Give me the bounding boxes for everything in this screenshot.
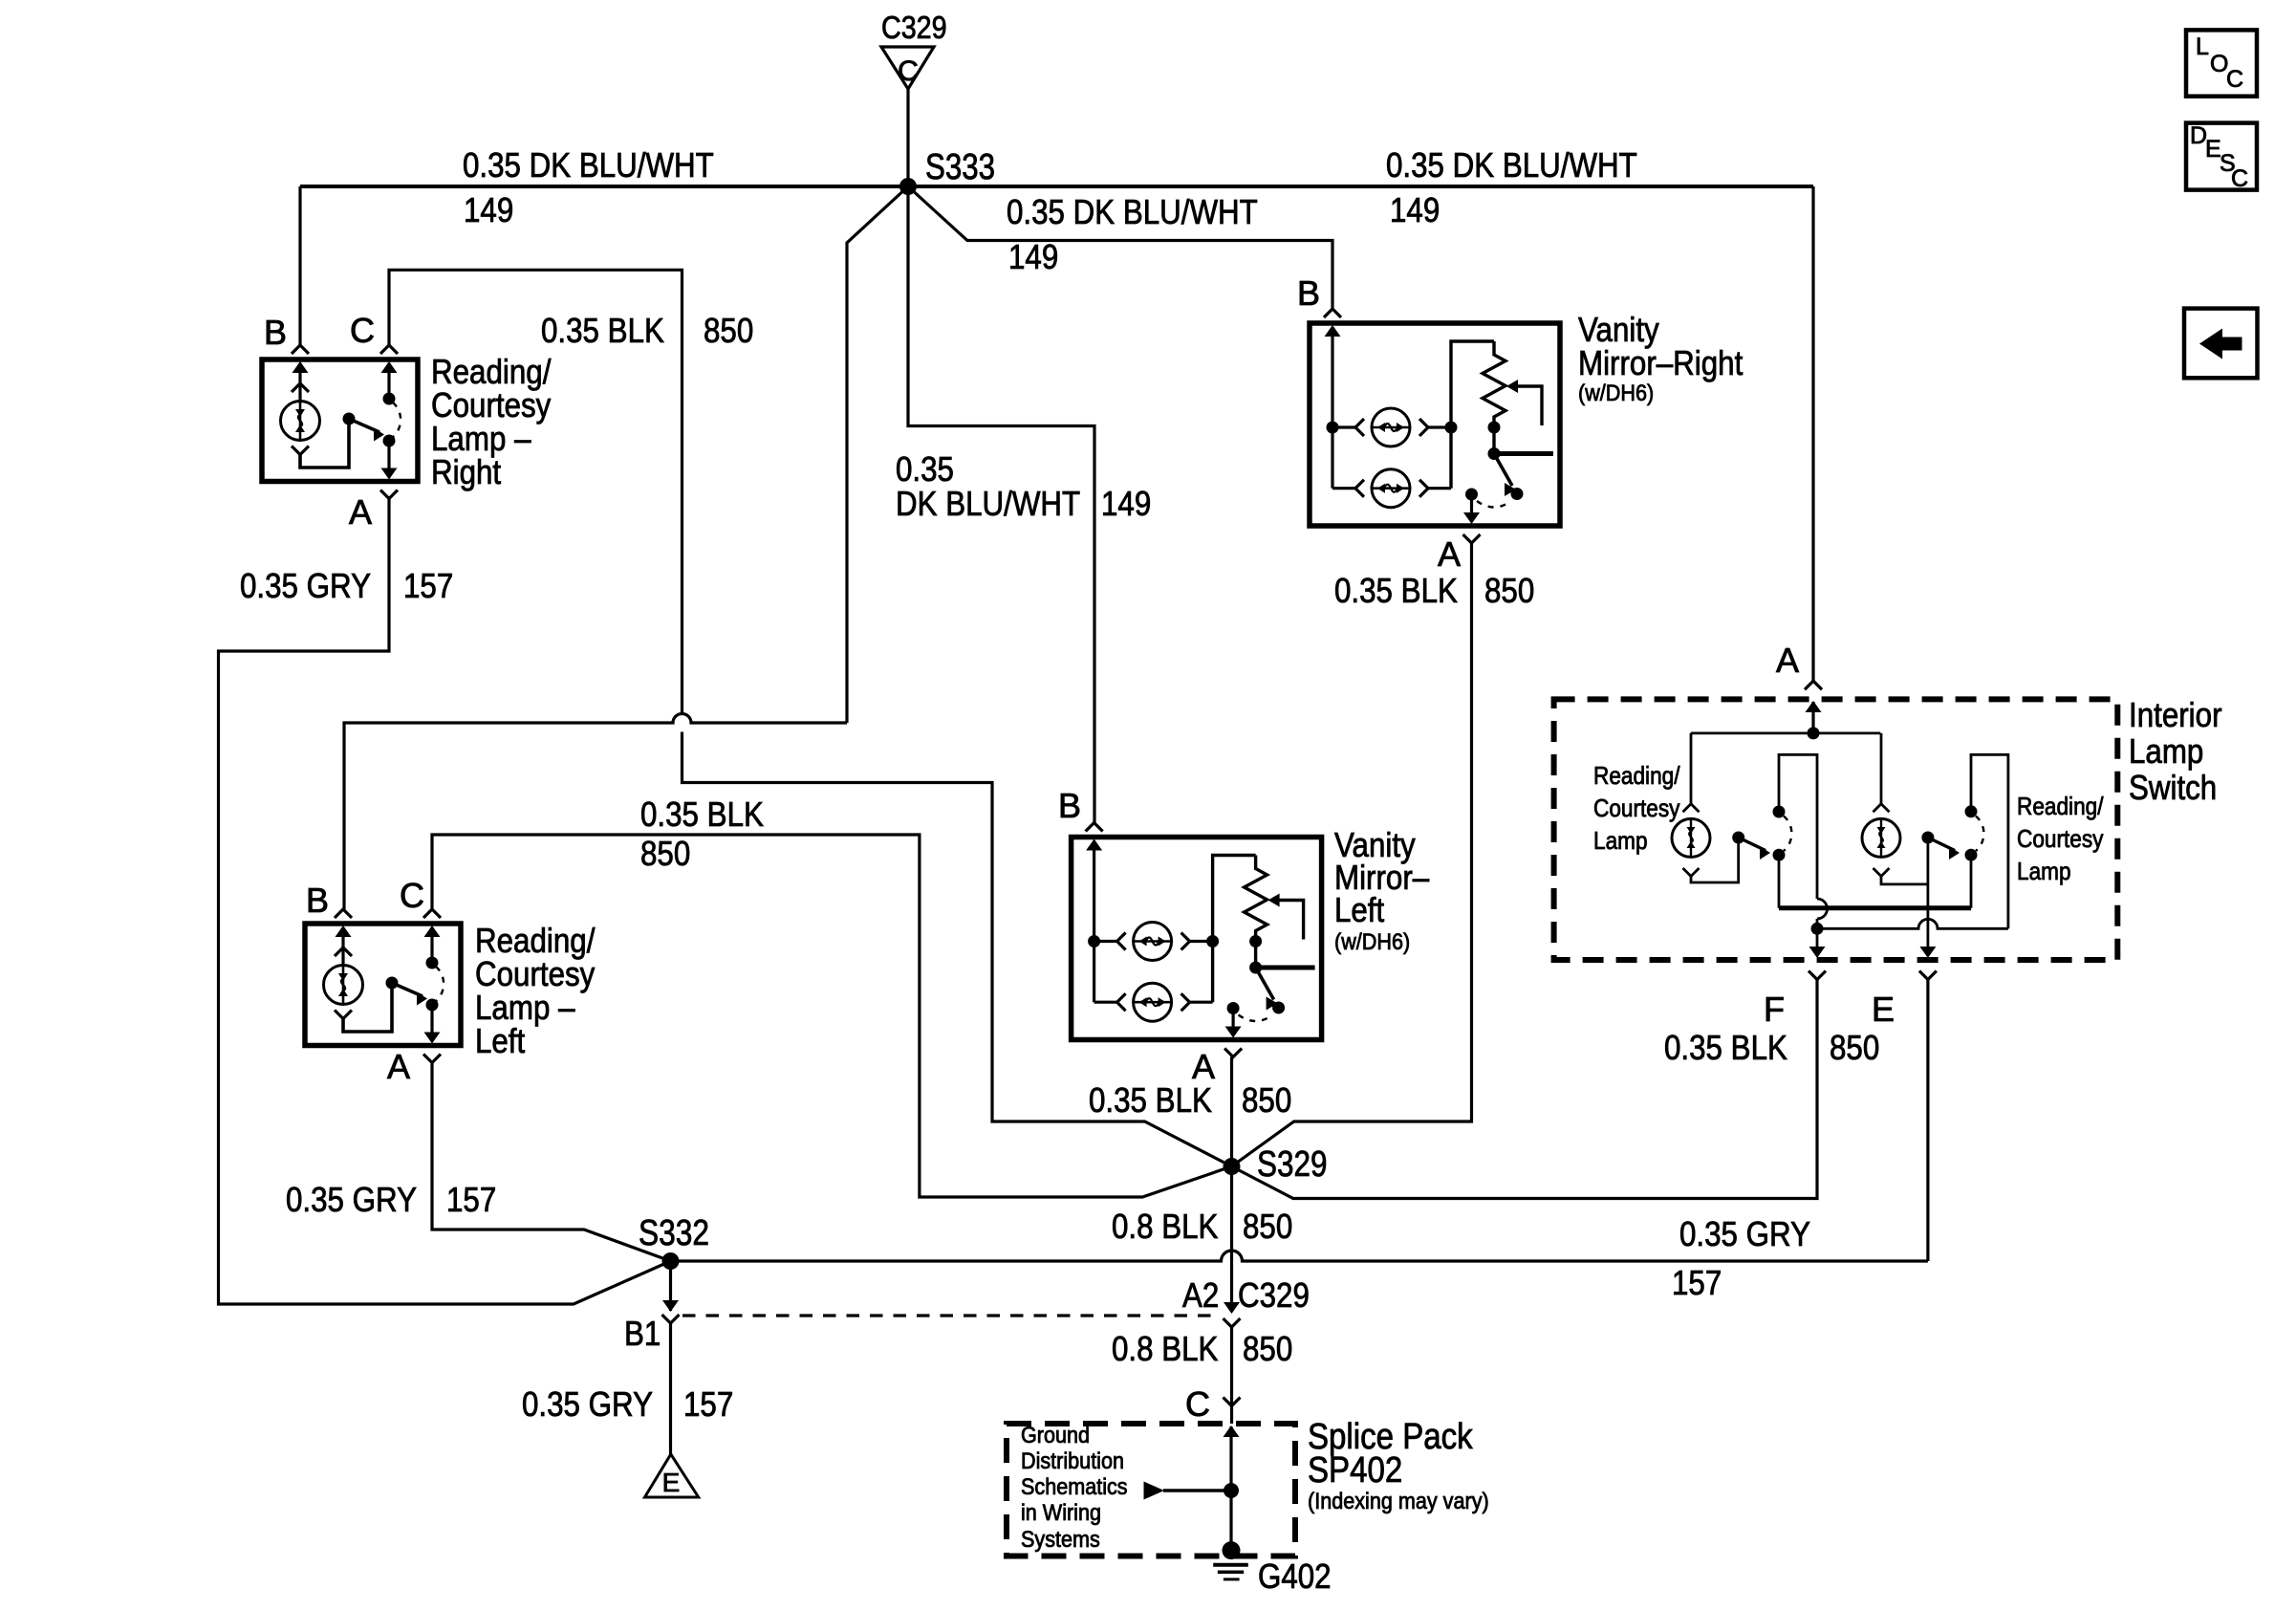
- reading/courtesy lamp right switch: [343, 413, 356, 425]
- svg-text:Left: Left: [475, 1021, 525, 1060]
- svg-text:(Indexing may vary): (Indexing may vary): [1308, 1489, 1489, 1514]
- wire vanity-left A to S329: [1230, 1057, 1233, 1167]
- reading/courtesy lamp right box: [262, 359, 418, 482]
- svg-text:Lamp: Lamp: [2017, 857, 2071, 885]
- connector C329 pin A2: [1224, 1302, 1240, 1314]
- vanity mirror right pin B connector: [1324, 309, 1341, 317]
- svg-text:149: 149: [464, 190, 513, 229]
- svg-text:A: A: [387, 1047, 410, 1086]
- reading/courtesy lamp left pin A connector: [423, 1055, 441, 1063]
- svg-text:Reading/: Reading/: [1593, 761, 1680, 790]
- interior switch F node: [1811, 923, 1824, 935]
- inline connector C329 dashed line: [682, 1314, 1220, 1317]
- svg-text:E: E: [662, 1468, 681, 1497]
- svg-text:Lamp: Lamp: [2129, 731, 2203, 771]
- wire lamp-left C to S329 (850): [432, 835, 1232, 1197]
- reading/courtesy lamp left pin A internal connector: [430, 1005, 433, 1041]
- wire lamp to E line: [1881, 877, 1928, 884]
- svg-text:157: 157: [1672, 1263, 1722, 1302]
- reading/courtesy lamp right pin C connector: [380, 345, 398, 354]
- interior switch pin F internal connector: [1816, 928, 1819, 956]
- interior switch left reading/courtesy lamp: [1690, 733, 1693, 804]
- svg-text:0.35 GRY: 0.35 GRY: [522, 1384, 653, 1424]
- svg-text:E: E: [1872, 990, 1895, 1029]
- reading/courtesy lamp left lamp: [324, 966, 363, 1005]
- svg-text:850: 850: [1242, 1080, 1291, 1120]
- svg-text:DK BLU/WHT: DK BLU/WHT: [896, 484, 1080, 523]
- svg-text:S332: S332: [639, 1213, 709, 1253]
- vanity mirror left lower lamp: [1094, 1001, 1117, 1004]
- vanity mirror left switch: [1249, 962, 1262, 974]
- svg-text:149: 149: [1008, 237, 1058, 276]
- wire C329 to S333: [906, 89, 909, 186]
- svg-text:0.35 BLK: 0.35 BLK: [541, 311, 664, 350]
- reading/courtesy lamp left pin C connector: [423, 909, 441, 918]
- svg-text:B: B: [1297, 273, 1320, 313]
- svg-text:0.35 BLK: 0.35 BLK: [1334, 571, 1458, 610]
- svg-text:Systems: Systems: [1021, 1527, 1100, 1553]
- svg-text:Right: Right: [431, 452, 501, 491]
- interior lamp switch dashed box: [1554, 699, 2118, 960]
- svg-text:C: C: [1185, 1384, 1210, 1424]
- vanity mirror left dimmer wiper: [1268, 894, 1280, 907]
- reading/courtesy lamp right pin C internal connector: [387, 363, 390, 399]
- connector splice pack pin C: [1224, 1398, 1241, 1406]
- reading/courtesy lamp left box: [305, 924, 461, 1046]
- svg-text:(w/DH6): (w/DH6): [1334, 929, 1410, 955]
- wire hop over contact bus: [1817, 899, 1828, 919]
- wire E to S332 horizontal (0.35 GRY 157): [1926, 980, 1929, 1262]
- splice S329: [1224, 1158, 1241, 1175]
- svg-text:0.8 BLK: 0.8 BLK: [1112, 1329, 1218, 1368]
- svg-text:850: 850: [1830, 1028, 1879, 1067]
- connector C329 (top): [881, 47, 934, 89]
- svg-text:A: A: [1438, 534, 1461, 574]
- wire F node horizontal with hop over E: [1817, 919, 2008, 928]
- connector E triangle (bottom): [645, 1454, 699, 1497]
- vanity mirror right dimmer resistor: [1483, 341, 1505, 427]
- svg-text:850: 850: [1484, 571, 1534, 610]
- svg-text:0.35 DK BLU/WHT: 0.35 DK BLU/WHT: [1386, 145, 1637, 185]
- wire vanity-right A to S329: [1232, 543, 1472, 1166]
- wire S329 down (0.8 BLK 850): [1230, 1166, 1233, 1312]
- vanity mirror right lower lamp: [1332, 487, 1355, 490]
- vanity mirror left dimmer resistor: [1245, 856, 1267, 942]
- wire lamp-left A to S332 (157): [432, 1063, 671, 1262]
- svg-text:L: L: [2196, 33, 2209, 60]
- reading/courtesy lamp right pin B internal connector: [298, 363, 301, 402]
- reading/courtesy lamp left lamp-to-switch wire: [343, 983, 392, 1032]
- vanity mirror left wire: [1093, 942, 1095, 1003]
- reading/courtesy lamp right pin A internal connector: [387, 441, 390, 477]
- vanity mirror right wire: [1451, 341, 1494, 489]
- svg-text:B: B: [306, 881, 329, 920]
- wire hop + horizontal to lamp-left B: [344, 714, 847, 910]
- vanity mirror right pin A internal connector: [1470, 494, 1473, 521]
- svg-text:850: 850: [640, 834, 690, 873]
- svg-text:C: C: [2231, 165, 2248, 192]
- svg-text:Courtesy: Courtesy: [1593, 794, 1680, 822]
- svg-text:0.8 BLK: 0.8 BLK: [1112, 1207, 1218, 1246]
- svg-text:0.35 BLK: 0.35 BLK: [1089, 1080, 1212, 1120]
- svg-text:Reading/: Reading/: [2017, 792, 2104, 820]
- vanity mirror right dimmer wiper: [1506, 380, 1518, 393]
- wire S332 to E corner with hop over 850 wire: [671, 1251, 1928, 1261]
- svg-text:0.35 GRY: 0.35 GRY: [1679, 1214, 1810, 1253]
- interior switch pin E internal connector: [1919, 947, 1936, 958]
- ground distribution reference arrow: [1163, 1489, 1231, 1491]
- reading/courtesy lamp right lamp: [281, 402, 320, 441]
- svg-text:Schematics: Schematics: [1021, 1474, 1128, 1500]
- vanity mirror left pin A connector: [1224, 1049, 1242, 1057]
- splice pack node: [1224, 1483, 1239, 1498]
- svg-text:Lamp: Lamp: [1593, 826, 1648, 855]
- reading/courtesy lamp left pin B connector: [335, 909, 352, 918]
- reading/courtesy lamp left pin B internal connector: [341, 927, 344, 966]
- svg-text:in Wiring: in Wiring: [1021, 1500, 1101, 1526]
- splice pack SP402 dashed box: [1007, 1424, 1295, 1557]
- svg-text:C329: C329: [1238, 1275, 1310, 1315]
- vanity mirror left node: [1088, 935, 1100, 947]
- wire 149 main horizontal: [300, 185, 1813, 188]
- vanity mirror left pin A internal connector: [1231, 1009, 1234, 1035]
- wire F to S329 (0.35 BLK 850): [1232, 980, 1818, 1199]
- LOC reference box: [2186, 30, 2257, 96]
- vanity mirror right wire: [1331, 427, 1333, 489]
- wire lamp-right A to S332 (157): [219, 499, 671, 1305]
- svg-text:C: C: [400, 876, 424, 915]
- svg-text:0.35: 0.35: [896, 449, 954, 489]
- wire C329 A2 to splice pack C (0.8 BLK 850): [1230, 1327, 1233, 1406]
- svg-text:SP402: SP402: [1308, 1450, 1402, 1491]
- svg-text:Courtesy: Courtesy: [2017, 824, 2104, 853]
- svg-text:157: 157: [446, 1180, 496, 1219]
- connector S332 to B1: [669, 1261, 672, 1311]
- interior switch pin A internal connector: [1811, 702, 1814, 733]
- interior switch feed bus: [1691, 732, 1881, 735]
- reading/courtesy lamp left switch: [386, 977, 399, 990]
- svg-text:157: 157: [683, 1384, 733, 1424]
- wire S333 down to vanity-left B: [908, 186, 1094, 823]
- reading/courtesy lamp right pin B connector: [292, 345, 309, 354]
- interior switch contact bus: [1779, 905, 1971, 910]
- back arrow box: [2184, 309, 2258, 379]
- svg-text:850: 850: [1243, 1207, 1292, 1246]
- wire S333 diagonal to vanity-right B: [908, 186, 1332, 309]
- svg-text:F: F: [1764, 990, 1785, 1029]
- DESC reference box: [2186, 123, 2257, 190]
- svg-text:B: B: [1058, 786, 1081, 825]
- svg-text:850: 850: [704, 311, 753, 350]
- svg-text:S329: S329: [1257, 1144, 1328, 1185]
- svg-text:C329: C329: [881, 10, 947, 45]
- svg-text:157: 157: [403, 566, 453, 605]
- ground G402: [1229, 1491, 1232, 1551]
- svg-text:0.35 BLK: 0.35 BLK: [640, 795, 764, 834]
- splice pack internal connector: [1229, 1426, 1232, 1491]
- wire S333 to x886 riser (DK BLU/WHT to lamp-left B): [847, 186, 908, 723]
- vanity mirror right switch: [1488, 447, 1501, 460]
- svg-text:(w/DH6): (w/DH6): [1578, 381, 1654, 406]
- svg-text:0.35 GRY: 0.35 GRY: [240, 566, 371, 605]
- vanity mirror left wire: [1213, 856, 1256, 1003]
- wire 149 to interior switch A: [1811, 186, 1814, 681]
- wire lamp-right C to S329 (850): [389, 270, 682, 713]
- svg-text:A2: A2: [1182, 1275, 1219, 1315]
- reading/courtesy lamp left pin C internal connector: [430, 927, 433, 963]
- vanity mirror left box: [1072, 838, 1322, 1040]
- svg-text:0.35 DK BLU/WHT: 0.35 DK BLU/WHT: [1007, 192, 1258, 231]
- svg-text:850: 850: [1243, 1329, 1292, 1368]
- svg-text:Distribution: Distribution: [1021, 1448, 1124, 1474]
- wire left upper contact to F: [1779, 754, 1817, 899]
- wire pivot to pin E: [1927, 838, 1930, 956]
- interior switch right reading/courtesy lamp: [1880, 733, 1883, 804]
- interior switch right switch: [1921, 832, 1934, 844]
- splice S332: [662, 1252, 680, 1270]
- svg-text:B1: B1: [624, 1314, 661, 1353]
- interior switch left switch: [1732, 832, 1744, 844]
- splice S333: [899, 178, 917, 195]
- svg-text:Ground: Ground: [1021, 1423, 1090, 1448]
- wire B1 to E triangle (0.35 GRY 157): [669, 1323, 672, 1454]
- svg-text:149: 149: [1101, 484, 1151, 523]
- wire left lower contact to bus: [1778, 855, 1781, 908]
- svg-text:0.35 DK BLU/WHT: 0.35 DK BLU/WHT: [463, 145, 714, 185]
- svg-text:A: A: [349, 492, 372, 532]
- svg-text:C: C: [2226, 66, 2243, 93]
- svg-text:149: 149: [1390, 190, 1440, 229]
- wire bus to right lower contact: [1970, 855, 1973, 908]
- reading/courtesy lamp right pin A connector: [380, 490, 398, 499]
- svg-text:A: A: [1776, 641, 1799, 680]
- svg-text:Mirror–Right: Mirror–Right: [1578, 343, 1743, 382]
- vanity mirror left pin B internal connector: [1093, 841, 1095, 942]
- svg-text:C: C: [898, 55, 919, 87]
- interior switch pin F connector: [1809, 971, 1826, 980]
- wire right upper contact to F node: [1971, 754, 2008, 928]
- vanity mirror right upper lamp: [1332, 425, 1355, 428]
- interior lamp switch pin A connector: [1805, 681, 1822, 689]
- vanity mirror right pin B internal connector: [1331, 327, 1333, 427]
- svg-text:0.35 GRY: 0.35 GRY: [286, 1180, 417, 1219]
- svg-text:B: B: [264, 313, 287, 352]
- svg-text:Switch: Switch: [2129, 768, 2217, 807]
- vanity mirror right node: [1327, 422, 1339, 434]
- vanity mirror right pin A connector: [1463, 534, 1481, 543]
- wire 149 to lamp-right B: [298, 186, 301, 345]
- svg-text:Left: Left: [1334, 890, 1384, 929]
- svg-text:0.35 BLK: 0.35 BLK: [1664, 1028, 1787, 1067]
- vanity mirror left upper lamp: [1094, 940, 1117, 943]
- wire lamp to left switch pivot: [1691, 838, 1739, 882]
- svg-text:Interior: Interior: [2129, 695, 2222, 734]
- vanity mirror right box: [1310, 323, 1560, 526]
- interior switch pin E connector: [1919, 971, 1937, 980]
- svg-text:G402: G402: [1258, 1557, 1332, 1596]
- svg-text:S333: S333: [925, 147, 995, 187]
- reading/courtesy lamp right lamp-to-switch wire: [300, 419, 349, 468]
- vanity mirror left pin B connector: [1086, 823, 1103, 832]
- svg-text:C: C: [350, 311, 375, 350]
